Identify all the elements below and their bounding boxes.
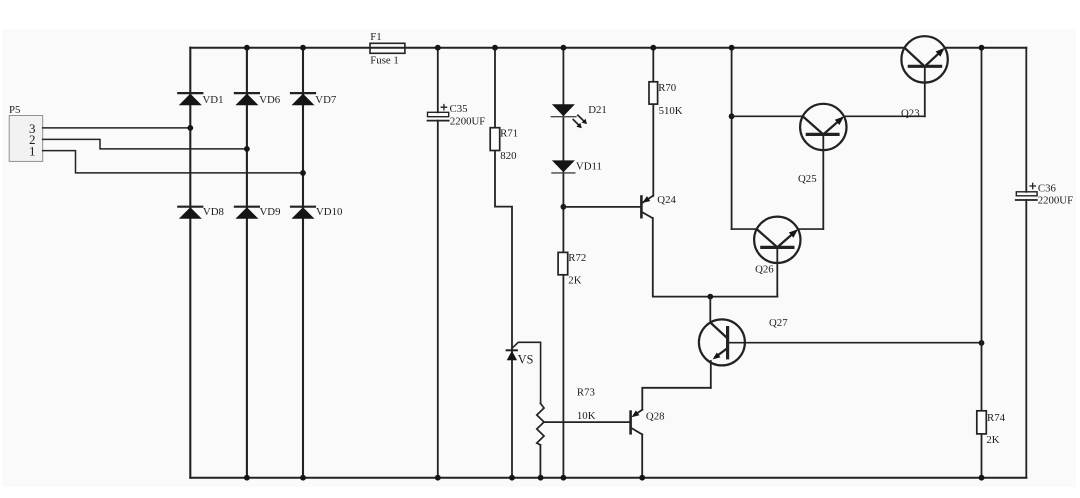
wire R73 wiper to Q28 base — [544, 421, 629, 423]
transistor Q24 — [641, 194, 676, 218]
svg-text:Q28: Q28 — [646, 411, 665, 423]
node R71 top junction — [492, 45, 498, 51]
node pin2 junction — [244, 146, 250, 152]
capacitor C35 — [428, 103, 486, 128]
node R73 bottom junction — [538, 475, 544, 481]
svg-text:VD11: VD11 — [576, 160, 602, 172]
node Q24 collector junction — [707, 294, 713, 300]
svg-text:VD1: VD1 — [203, 94, 224, 106]
node rectifier column 2 top — [244, 45, 250, 51]
node R72 bottom junction — [561, 475, 567, 481]
node rectifier column 3 top — [300, 45, 306, 51]
svg-text:P5: P5 — [9, 104, 20, 116]
svg-text:VS: VS — [518, 352, 534, 366]
svg-text:VD10: VD10 — [316, 206, 342, 218]
svg-text:VD7: VD7 — [315, 94, 337, 106]
node R74 top junction — [979, 45, 985, 51]
wire rectifier column 1 — [189, 48, 191, 478]
wire P5 pin 3 — [43, 127, 191, 129]
svg-text:D21: D21 — [588, 104, 607, 116]
node LED branch top junction — [561, 45, 567, 51]
node rectifier column 3 bottom — [300, 475, 306, 481]
node zener bottom junction — [509, 475, 515, 481]
svg-text:2200UF: 2200UF — [450, 116, 485, 128]
diode VD7 — [291, 93, 337, 106]
node pin3 junction — [187, 125, 193, 131]
resistor R70 — [649, 48, 683, 196]
capacitor C36 — [1016, 182, 1073, 206]
svg-text:Fuse 1: Fuse 1 — [370, 54, 399, 66]
node Q26 feed top junction — [729, 45, 735, 51]
resistor R74 — [977, 48, 1006, 478]
node rectifier column 2 bottom — [244, 475, 250, 481]
wire zener to R73 — [512, 342, 541, 403]
wire output column — [1025, 48, 1027, 478]
wire Q27 emitter to Q28 — [642, 388, 711, 410]
diode VD11 — [552, 160, 602, 173]
svg-text:820: 820 — [500, 150, 516, 162]
wire Q28 collector — [641, 434, 643, 477]
svg-text:10K: 10K — [577, 410, 596, 422]
wire rectifier column 3 — [302, 48, 304, 478]
wire P5 pin 1 — [43, 151, 303, 173]
fuse F1 — [370, 31, 405, 66]
wire bottom bus — [190, 477, 1026, 479]
potentiometer R73 — [537, 387, 596, 478]
wire Q26 emitter to Q25 base — [798, 228, 823, 230]
diode VD10 — [291, 206, 342, 219]
node pin1 junction — [300, 170, 306, 176]
svg-text:Q24: Q24 — [657, 194, 676, 206]
wire Q26 collector — [732, 228, 757, 230]
svg-text:VD8: VD8 — [203, 206, 224, 218]
svg-text:Q23: Q23 — [901, 108, 920, 120]
diode VD6 — [235, 93, 281, 106]
transistor Q23 — [901, 36, 948, 119]
wire Q25 emitter to Q23 base — [844, 115, 925, 117]
svg-text:C36: C36 — [1038, 182, 1057, 194]
svg-text:VD6: VD6 — [259, 94, 281, 106]
svg-text:C35: C35 — [450, 103, 468, 115]
transistor Q27 — [699, 297, 788, 388]
wire Q24 base — [563, 206, 640, 208]
svg-text:R71: R71 — [500, 127, 518, 139]
svg-text:2K: 2K — [986, 434, 999, 446]
svg-text:VD9: VD9 — [260, 206, 281, 218]
wire Q25 collector — [732, 115, 803, 117]
svg-text:510K: 510K — [659, 105, 683, 117]
svg-text:R73: R73 — [577, 387, 595, 399]
wire top bus — [190, 47, 1026, 49]
connector P5 — [9, 104, 43, 161]
wire Q26 collector feed — [731, 48, 733, 229]
zener VS — [507, 350, 534, 366]
wire C35 branch — [437, 48, 439, 478]
node Q28 collector junction — [639, 475, 645, 481]
svg-text:2K: 2K — [568, 275, 581, 287]
wire R71 branch — [495, 48, 512, 478]
svg-text:2200UF: 2200UF — [1038, 195, 1073, 207]
resistor R72 — [558, 252, 586, 287]
node Q25 collector branch junction — [729, 113, 735, 119]
wire LED branch — [562, 48, 564, 478]
wire P5 pin 2 — [43, 139, 247, 149]
node R74 bottom junction — [979, 475, 985, 481]
svg-text:R74: R74 — [987, 412, 1006, 424]
svg-text:Q26: Q26 — [755, 264, 774, 276]
diode VD9 — [235, 206, 281, 219]
transistor Q26 — [754, 217, 800, 297]
node C35 top junction — [435, 45, 441, 51]
svg-text:1: 1 — [29, 144, 36, 159]
svg-text:F1: F1 — [370, 31, 381, 43]
transistor Q28 — [631, 410, 665, 435]
resistor R71 — [490, 127, 518, 162]
svg-text:R70: R70 — [658, 82, 676, 94]
svg-text:Q25: Q25 — [798, 173, 817, 185]
diode VD1 — [178, 93, 223, 106]
node Q27 base R74 junction — [979, 340, 985, 346]
svg-text:Q27: Q27 — [769, 317, 788, 329]
diode VD8 — [178, 206, 224, 219]
node C35 bottom junction — [435, 475, 441, 481]
node R70 top junction — [650, 45, 656, 51]
wire Q24 collector — [653, 218, 778, 296]
wire Q27 base — [728, 342, 982, 344]
wire rectifier column 2 — [246, 48, 248, 478]
svg-text:R72: R72 — [568, 252, 586, 264]
node D21 branch junction — [561, 204, 567, 210]
transistor Q25 — [798, 104, 847, 229]
LED D21 — [551, 104, 607, 128]
